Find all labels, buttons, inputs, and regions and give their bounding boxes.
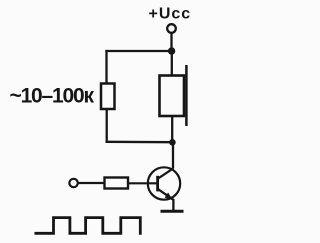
resistor R2 (base) (105, 178, 129, 189)
wire left vertical lower (106, 109, 108, 143)
wire resistor to base (128, 182, 157, 184)
load element side line (185, 65, 188, 126)
ground bar (161, 210, 184, 213)
wire input to resistor (78, 182, 105, 184)
wire junction to collector (172, 143, 174, 169)
load element (rectangle) (160, 76, 185, 117)
svg-text:+Ucc: +Ucc (149, 6, 192, 23)
wire left vertical upper (105, 50, 107, 85)
wire terminal to junction (170, 33, 172, 51)
wire emitter down (172, 199, 174, 212)
terminal +Ucc (167, 24, 176, 33)
wire Ucc to load (171, 51, 173, 76)
wire top horizontal (105, 50, 171, 52)
wire bottom horizontal of loop (106, 141, 173, 144)
wire load to collector (171, 116, 173, 144)
transistor VT1 (148, 167, 180, 200)
junction node lower (169, 139, 176, 146)
waveform input square wave (35, 218, 141, 235)
input terminal (69, 179, 77, 187)
resistor R1 (10-100k) (101, 84, 115, 110)
svg-text:~10–100к: ~10–100к (10, 85, 95, 108)
junction node top (168, 47, 175, 54)
